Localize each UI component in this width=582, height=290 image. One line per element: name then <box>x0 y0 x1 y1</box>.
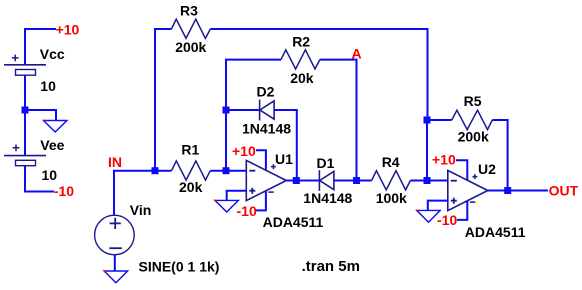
wire to D2 cathode <box>226 109 260 111</box>
junction battery midpoint <box>22 107 29 114</box>
svg-text:R5: R5 <box>464 93 482 109</box>
junction R5 tap <box>424 117 431 124</box>
svg-text:OUT: OUT <box>549 183 579 199</box>
wire R5 left lead <box>427 119 452 121</box>
op-amp U1 <box>246 160 286 200</box>
voltage source Vin <box>95 215 135 255</box>
op-amp U2 <box>448 170 488 210</box>
wire Vee bottom to -10 flag <box>25 166 54 192</box>
svg-text:U1: U1 <box>275 151 293 167</box>
svg-text:U2: U2 <box>478 161 496 177</box>
wire U2 noninverting input to ground <box>428 201 448 211</box>
wire IN column up and top net to R3 <box>155 29 171 171</box>
wire R2 left lead and U1- column <box>226 60 281 171</box>
ground (U1 +input) <box>215 200 239 212</box>
wire U1 output <box>286 180 297 182</box>
svg-text:1N4148: 1N4148 <box>242 121 291 137</box>
svg-text:ADA4511: ADA4511 <box>263 214 324 230</box>
svg-text:Vee: Vee <box>40 137 64 153</box>
svg-text:-10: -10 <box>54 183 74 199</box>
svg-text:R2: R2 <box>292 34 310 50</box>
wire D1 anode to node A / R4 <box>334 180 372 182</box>
wire R5 right lead down to output <box>492 120 507 191</box>
svg-text:R4: R4 <box>382 154 400 170</box>
svg-text:100k: 100k <box>376 190 407 206</box>
ground (U2 +input) <box>416 210 440 223</box>
svg-text:20k: 20k <box>179 179 203 195</box>
junction D2 tap <box>223 107 230 114</box>
resistor R2 <box>281 50 320 69</box>
junction IN node <box>152 167 159 174</box>
ground (Vin) <box>104 270 128 282</box>
wire R3 to R5/U2 column <box>210 29 427 120</box>
resistor R3 <box>171 19 210 38</box>
svg-text:+10: +10 <box>56 21 80 37</box>
svg-text:+10: +10 <box>232 143 256 159</box>
resistor R1 <box>172 161 211 180</box>
svg-text:IN: IN <box>108 154 122 170</box>
svg-text:Vcc: Vcc <box>40 46 65 62</box>
junction node A <box>353 177 360 184</box>
wire R5 tap down to U2 inverting input <box>426 120 428 181</box>
svg-text:D2: D2 <box>257 84 275 100</box>
wire Vcc bottom to Vee top <box>24 75 26 156</box>
wire R4 to U2 inverting input <box>410 180 447 182</box>
diode D2 <box>260 100 275 121</box>
svg-text:-10: -10 <box>437 212 457 228</box>
wire IN node to R1 <box>114 171 172 216</box>
resistor R4 <box>372 171 411 190</box>
battery Vcc <box>4 55 46 76</box>
svg-text:1N4148: 1N4148 <box>303 190 352 206</box>
junction R3/R4/R5/U2- <box>424 177 431 184</box>
wire R2 right to node A column <box>320 60 357 181</box>
junction U2 output <box>504 187 511 194</box>
svg-text:+10: +10 <box>432 152 456 168</box>
svg-text:-10: -10 <box>237 203 257 219</box>
svg-text:200k: 200k <box>175 39 206 55</box>
wire U1 noninverting input to ground <box>227 191 247 201</box>
svg-text:R3: R3 <box>180 3 198 19</box>
wire U2 output to OUT <box>488 190 548 192</box>
resistor R5 <box>452 110 493 129</box>
svg-text:20k: 20k <box>290 70 314 86</box>
wire Vcc top to +10 flag <box>25 29 56 65</box>
svg-text:10: 10 <box>40 78 56 94</box>
svg-text:R1: R1 <box>181 142 199 158</box>
svg-text:ADA4511: ADA4511 <box>465 224 526 240</box>
wire U1 -10 supply <box>256 190 266 210</box>
wire U2 -10 supply <box>457 201 467 220</box>
wire R1 to U1 inverting input <box>210 170 246 172</box>
battery Vee <box>4 145 46 166</box>
svg-text:200k: 200k <box>458 129 489 145</box>
svg-text:SINE(0 1 1k): SINE(0 1 1k) <box>139 258 220 274</box>
svg-text:.tran 5m: .tran 5m <box>302 258 360 275</box>
wire Vin bottom to ground <box>114 255 116 271</box>
junction U1 output <box>293 177 300 184</box>
svg-text:A: A <box>352 45 362 61</box>
svg-text:Vin: Vin <box>130 202 152 218</box>
wire U1 output to D1 <box>297 180 320 182</box>
svg-text:D1: D1 <box>317 155 335 171</box>
svg-text:10: 10 <box>42 167 58 183</box>
wire junction to ground branch <box>25 110 56 121</box>
wire D2 anode to U1 output column <box>274 110 297 181</box>
wire U2 +10 supply <box>456 160 467 181</box>
diode D1 <box>319 170 334 191</box>
junction R1/U1- <box>223 167 230 174</box>
wire U1 +10 supply <box>256 150 266 170</box>
ground (supply midpoint) <box>43 120 67 132</box>
